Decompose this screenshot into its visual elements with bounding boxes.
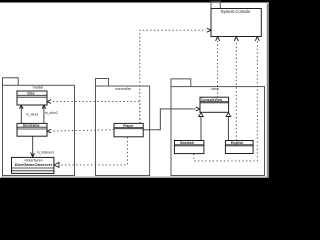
svg-text:System.Console: System.Console xyxy=(221,9,252,14)
arrowhead up at Dice xyxy=(42,105,46,109)
dependency Player to Dice (dashed) xyxy=(52,102,140,124)
arrowhead at Dice right xyxy=(47,100,51,104)
generalization Swedish to ConsoleView xyxy=(200,116,202,140)
svg-text:m_dice1: m_dice1 xyxy=(26,113,39,117)
class Dice xyxy=(17,91,47,105)
svg-text:Dice: Dice xyxy=(27,91,34,95)
realization Player to DiceGameObserver (dashed) xyxy=(60,137,128,165)
svg-text:ConsoleView: ConsoleView xyxy=(201,98,222,102)
arrowhead at DiceGame right xyxy=(47,129,51,133)
svg-text:Player: Player xyxy=(123,124,134,128)
association DiceGame to Dice m_dice1 (wire) xyxy=(20,105,22,123)
svg-text:English: English xyxy=(231,141,243,145)
svg-text:DiceGameObserver: DiceGameObserver xyxy=(15,162,53,167)
association DiceGame to DiceGameObserver m_listeners (wire) xyxy=(32,136,34,157)
arrowhead at System.Console left xyxy=(207,28,211,32)
arrowhead down at DiceGameObserver xyxy=(31,153,35,157)
dependency Player to System.Console (dashed) xyxy=(140,30,207,123)
hollow triangle up at ConsoleView bottom left xyxy=(199,113,204,117)
svg-text:m_listeners: m_listeners xyxy=(37,150,55,154)
package controller tab xyxy=(96,79,109,87)
black bar right xyxy=(269,0,272,185)
svg-text:Swedish: Swedish xyxy=(180,141,194,145)
dependency Player to DiceGame (dashed) xyxy=(52,130,114,131)
page background xyxy=(0,0,272,185)
hollow triangle at DiceGameObserver right xyxy=(54,162,59,167)
package System.Console body xyxy=(211,9,261,37)
dependency Swedish to System.Console (dashed) xyxy=(194,41,257,161)
black bar bottom xyxy=(0,178,272,185)
class English xyxy=(225,141,253,154)
package view body xyxy=(171,87,265,176)
svg-text:controller: controller xyxy=(115,86,132,91)
class Player xyxy=(114,123,143,136)
arrowhead up xyxy=(234,37,238,41)
package model tab xyxy=(3,78,19,86)
svg-text:model: model xyxy=(33,85,44,90)
black bar top xyxy=(0,0,272,3)
arrowhead up at Dice xyxy=(20,105,24,109)
association Player to ConsoleView (wire) xyxy=(143,109,195,130)
generalization English to ConsoleView xyxy=(227,116,229,140)
arrowhead at ConsoleView left xyxy=(196,107,200,111)
svg-text:DiceGame: DiceGame xyxy=(23,124,40,128)
svg-text:m_dice2: m_dice2 xyxy=(45,111,58,115)
package System.Console tab xyxy=(211,1,220,8)
class Swedish xyxy=(174,141,204,154)
package view tab xyxy=(171,79,191,87)
class ConsoleView xyxy=(200,97,229,112)
dependency English to System.Console (dashed) xyxy=(235,41,237,141)
page shadow bottom xyxy=(1,177,268,178)
dependency ConsoleView to System.Console (dashed) xyxy=(217,41,219,98)
interface DiceGameObserver xyxy=(12,157,54,173)
hollow triangle up at ConsoleView bottom right xyxy=(226,113,231,117)
arrowhead up xyxy=(255,37,259,41)
association DiceGame to Dice m_dice2 (wire) xyxy=(43,105,45,123)
package model body xyxy=(3,85,75,175)
package controller body xyxy=(96,86,150,176)
class DiceGame xyxy=(17,123,47,136)
page shadow right xyxy=(267,4,269,179)
arrowhead up xyxy=(216,37,220,41)
